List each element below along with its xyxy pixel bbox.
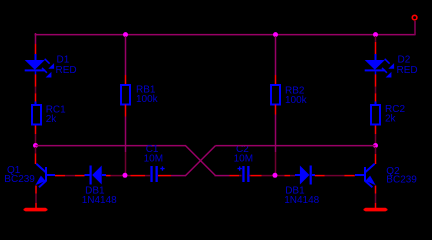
LED D2 (365, 59, 394, 78)
node RB1 base junction (123, 173, 128, 178)
node junction top at RB1 (123, 32, 128, 37)
svg-text:100k: 100k (285, 95, 308, 106)
wire C2 to node RB2 (249, 175, 251, 177)
wire RB2 bottom (275, 105, 277, 115)
wire col3 RB2 top (275, 36, 277, 75)
wire col4 above LED D2 (375, 36, 377, 42)
wire RC2 to node (375, 126, 377, 135)
wire top supply rail (35, 34, 416, 36)
resistor RC1 (32, 105, 41, 125)
node junction top at RB2 (273, 32, 278, 37)
node Q1 collector (33, 143, 38, 148)
svg-text:1N4148: 1N4148 (82, 195, 117, 206)
wire collector rail Q2 (216, 145, 376, 147)
wire col1 LED to RC1 (35, 74, 37, 86)
wire node to C1 (128, 175, 131, 177)
svg-text:2k: 2k (46, 114, 58, 125)
svg-text:RED: RED (397, 65, 418, 76)
wire diode to Q2 base (312, 174, 315, 176)
svg-text:2k: 2k (385, 114, 397, 125)
wire Q1 base rail: Q1 to diode (47, 174, 56, 176)
wire col1 above LED D1 (35, 44, 37, 54)
svg-text:BC239: BC239 (386, 175, 417, 186)
node junction top at RC2 (373, 32, 378, 37)
node RB2 base junction (273, 173, 278, 178)
wire diode to RB1 node (102, 174, 106, 176)
svg-text:RED: RED (56, 65, 77, 76)
wire rail into C2 (215, 175, 230, 177)
diode DB1 (right) 1N4148 (300, 166, 312, 185)
ground (Q1 emitter) (24, 208, 48, 212)
wire base rail from C1 up to collector rail Q2 (right, y=145) (158, 175, 171, 177)
ground (Q2 emitter) (364, 208, 388, 212)
transistor Q1 BC239 (35, 147, 47, 187)
wire col2 RB1 top (125, 36, 127, 75)
svg-text:10M: 10M (234, 154, 253, 165)
wire Q1 emitter to ground (35, 186, 37, 194)
wire col4 LED to RC2 (375, 74, 377, 86)
diode DB1 (left) 1N4148 (90, 166, 102, 185)
wire top-left corner stub (35, 33, 37, 44)
svg-text:10M: 10M (144, 154, 163, 165)
capacitor C1 (150, 166, 164, 182)
svg-text:BC239: BC239 (4, 174, 35, 185)
terminal X1 (412, 15, 417, 20)
svg-text:100k: 100k (136, 94, 159, 105)
LED D1 (25, 59, 54, 78)
transistor Q2 BC239 (364, 147, 376, 187)
wire node to diode DB1b (278, 175, 285, 177)
resistor RB2 (271, 85, 280, 105)
resistor RB1 (121, 85, 130, 105)
wire diagonal up from C1 rail (186, 146, 216, 176)
wire RC1 to node (35, 126, 37, 135)
wire diagonal down to C2 rail (186, 146, 216, 176)
wire collector rail Q1 (left, y=145) (36, 145, 187, 147)
wire Q2 emitter to ground (375, 186, 377, 194)
capacitor C2 (238, 166, 250, 182)
node Q2 collector (373, 143, 378, 148)
wire right riser to terminal (414, 21, 416, 35)
svg-text:1N4148: 1N4148 (284, 195, 319, 206)
resistor RC2 (371, 105, 380, 125)
wire RB1 bottom (125, 105, 127, 117)
